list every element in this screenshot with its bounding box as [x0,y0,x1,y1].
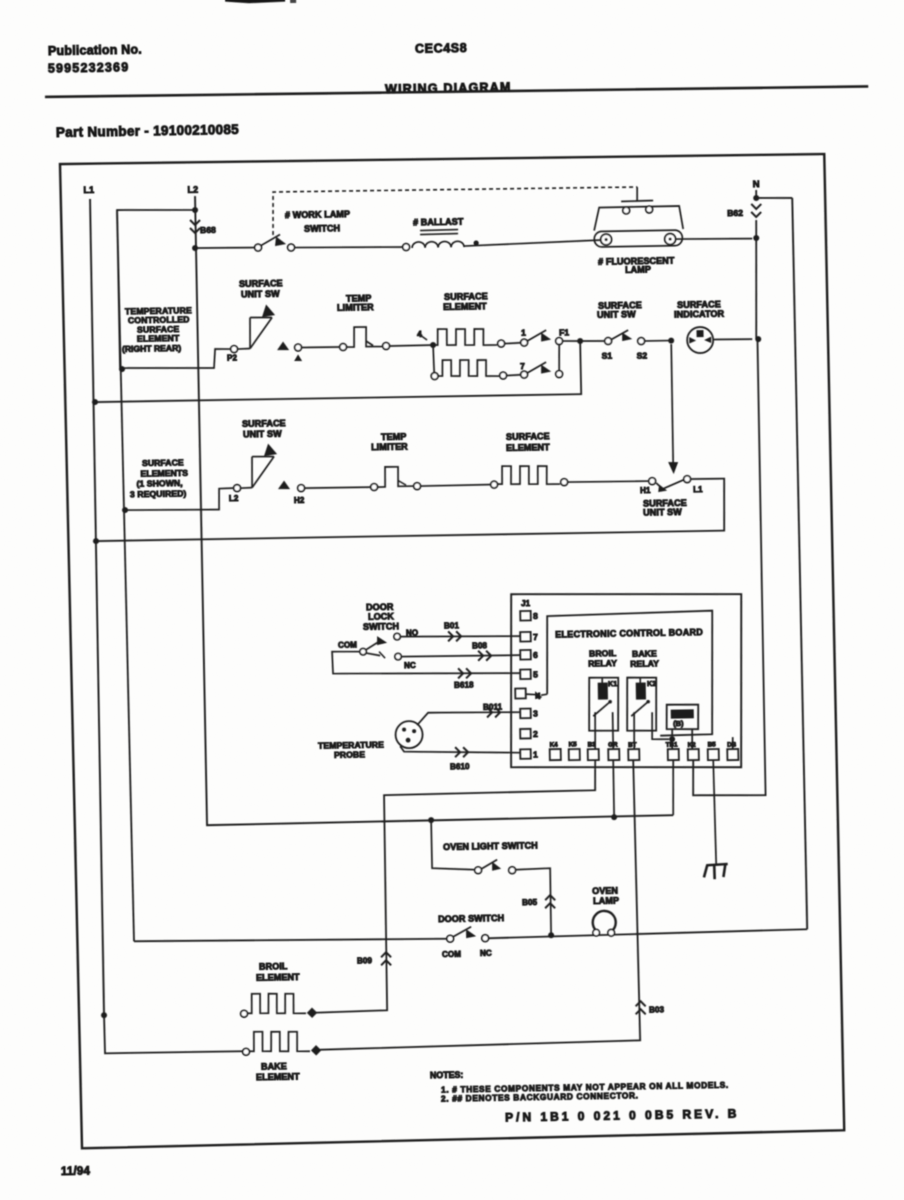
svg-text:TEMP: TEMP [381,432,407,442]
svg-text:# BALLAST: # BALLAST [413,217,464,228]
svg-text:7: 7 [533,632,538,642]
svg-text:BT: BT [628,742,637,749]
svg-text:K2: K2 [688,742,697,749]
svg-text:S2: S2 [637,350,648,360]
svg-text:OVEN: OVEN [592,886,618,896]
svg-text:LIMITER: LIMITER [337,302,374,313]
svg-text:LAMP: LAMP [625,265,651,275]
svg-text:B08: B08 [472,641,488,650]
svg-text:P2: P2 [227,353,238,362]
svg-text:NC: NC [404,661,416,670]
svg-text:UNIT SW: UNIT SW [243,429,282,440]
svg-text:K5: K5 [569,741,578,748]
svg-text:BAKE: BAKE [261,1061,287,1071]
svg-text:B618: B618 [454,680,474,689]
svg-text:1: 1 [521,327,526,337]
svg-text:K4: K4 [550,742,559,749]
svg-text:BROIL: BROIL [589,648,616,658]
svg-text:L1: L1 [693,485,703,494]
svg-text:ELEMENT: ELEMENT [256,972,300,983]
svg-text:3 REQUIRED): 3 REQUIRED) [130,488,187,499]
svg-text:B03: B03 [649,1005,665,1014]
svg-text:RELAY: RELAY [588,658,617,668]
svg-text:CEC4S8: CEC4S8 [415,41,467,56]
svg-text:SURFACE: SURFACE [239,278,283,289]
svg-text:SURFACE: SURFACE [242,418,286,429]
svg-text:B68: B68 [200,225,216,235]
svg-text:Publication No.: Publication No. [48,42,142,58]
svg-text:L1: L1 [83,185,94,195]
svg-text:N: N [753,179,760,190]
svg-text:K2: K2 [647,681,656,688]
svg-text:3: 3 [533,709,538,719]
svg-text:L2: L2 [229,494,239,503]
svg-text:B09: B09 [357,956,373,965]
svg-text:UNIT SW: UNIT SW [597,309,636,320]
svg-text:SWITCH: SWITCH [363,621,399,632]
svg-text:NOTES:: NOTES: [430,1070,463,1081]
svg-text:B5: B5 [708,742,717,749]
svg-text:ELEMENT: ELEMENT [506,442,550,453]
svg-text:OVEN LIGHT SWITCH: OVEN LIGHT SWITCH [443,841,538,853]
svg-text:11/94: 11/94 [61,1166,91,1179]
svg-text:B011: B011 [483,702,503,711]
svg-text:(1 SHOWN,: (1 SHOWN, [136,478,182,489]
svg-text:ELEMENT: ELEMENT [443,301,487,312]
svg-text:7: 7 [520,361,525,371]
svg-text:SURFACE: SURFACE [142,457,184,468]
svg-text:1: 1 [533,749,538,759]
svg-text:J1: J1 [521,599,531,608]
svg-text:L2: L2 [187,185,198,195]
svg-text:(RIGHT REAR): (RIGHT REAR) [122,343,182,354]
svg-text:LIMITER: LIMITER [371,441,408,452]
svg-text:UNIT SW: UNIT SW [241,289,280,300]
svg-text:LAMP: LAMP [593,896,619,906]
svg-text:5: 5 [533,670,538,680]
svg-text:8: 8 [533,611,538,621]
svg-text:4: 4 [536,692,541,701]
svg-text:Part Number - 19100210085: Part Number - 19100210085 [56,122,240,140]
svg-text:B62: B62 [727,208,743,218]
svg-text:5995232369: 5995232369 [48,60,130,75]
svg-text:COM: COM [442,950,461,959]
svg-text:(B): (B) [673,719,684,728]
svg-text:LOCK: LOCK [368,611,394,621]
svg-text:BROIL: BROIL [259,961,288,971]
svg-text:F1: F1 [559,327,569,337]
svg-text:6: 6 [533,650,538,660]
svg-text:PROBE: PROBE [334,749,365,760]
svg-text:COM: COM [338,640,357,649]
svg-text:RELAY: RELAY [630,658,659,668]
svg-text:B610: B610 [450,762,470,771]
svg-text:INDICATOR: INDICATOR [674,309,725,320]
svg-text:SWITCH: SWITCH [304,223,340,234]
svg-text:DOOR SWITCH: DOOR SWITCH [438,913,504,924]
svg-text:SURFACE: SURFACE [506,431,550,442]
svg-text:S1: S1 [602,350,613,360]
svg-text:# WORK LAMP: # WORK LAMP [285,209,350,220]
svg-text:UNIT SW: UNIT SW [643,507,682,518]
svg-text:4: 4 [417,329,422,339]
svg-text:BAKE: BAKE [632,648,657,658]
svg-text:B01: B01 [444,621,460,630]
svg-text:B3: B3 [588,742,597,749]
svg-text:ELEMENT: ELEMENT [256,1072,300,1083]
svg-text:ELEMENT: ELEMENT [137,333,180,344]
svg-text:WIRING DIAGRAM: WIRING DIAGRAM [385,80,512,96]
svg-text:GR: GR [608,741,618,748]
svg-text:H1: H1 [640,486,651,495]
svg-text:NC: NC [480,949,492,958]
svg-text:H2: H2 [294,496,305,505]
svg-text:K1: K1 [608,681,617,688]
svg-text:B05: B05 [522,898,538,907]
svg-text:2: 2 [533,729,538,739]
